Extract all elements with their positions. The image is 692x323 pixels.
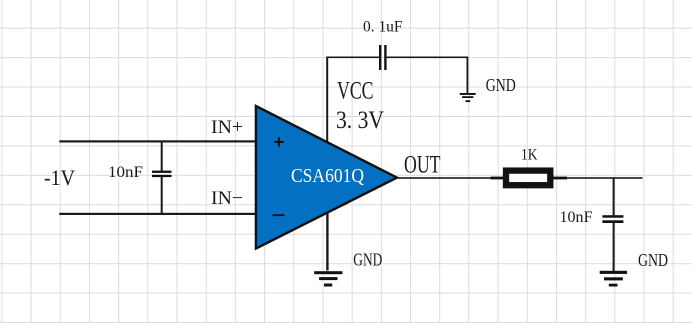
capacitor C2 plates (0.1uF) (379, 45, 387, 70)
ground symbol (top right) (460, 93, 476, 102)
wire VCC to C2 (326, 57, 379, 59)
wire GND lead below op-amp (326, 212, 328, 271)
capacitor C3 plates (10nF output filter) (602, 215, 623, 223)
wire OUT from op-amp to resistor (397, 177, 503, 179)
wire IN- net: left horizontal (59, 213, 256, 215)
svg-text:1K: 1K (521, 147, 538, 164)
pin symbol + (non-inverting input) (274, 137, 283, 146)
wire resistor to output node (567, 177, 643, 179)
svg-text:GND: GND (353, 250, 382, 270)
svg-text:0. 1uF: 0. 1uF (363, 19, 403, 36)
svg-text:GND: GND (486, 75, 516, 95)
resistor R1 body (1K) (506, 171, 550, 186)
wire C1 top lead (161, 141, 163, 171)
op-amp U1 triangle body (256, 106, 397, 249)
wire C2 right lead to GND drop (387, 57, 469, 59)
svg-text:-1V: -1V (44, 165, 75, 190)
svg-text:GND: GND (638, 250, 668, 270)
svg-text:OUT: OUT (404, 152, 441, 179)
ground symbol (bottom right) (600, 271, 627, 287)
svg-text:3. 3V: 3. 3V (336, 107, 384, 134)
wire VCC vertical into op-amp top (326, 57, 328, 143)
pin symbol - (inverting input) (273, 214, 285, 216)
svg-text:IN−: IN− (211, 188, 243, 209)
resistor R1 lead left (491, 177, 504, 180)
svg-text:IN+: IN+ (211, 117, 243, 138)
ground symbol (below op-amp) (314, 271, 342, 286)
svg-text:VCC: VCC (337, 78, 374, 105)
svg-text:CSA601Q: CSA601Q (291, 165, 364, 187)
wire C3 top lead (613, 177, 615, 215)
svg-text:10nF: 10nF (560, 209, 593, 226)
wire IN+ net: left horizontal (59, 140, 256, 142)
wire vertical drop to top GND (467, 57, 469, 94)
svg-text:10nF: 10nF (108, 164, 143, 181)
wire C3 bottom lead (613, 223, 615, 271)
wire C1 bottom lead (161, 177, 163, 214)
capacitor C1 plates (10nF between IN+ and IN-) (152, 171, 172, 178)
resistor R1 lead right (554, 177, 568, 180)
